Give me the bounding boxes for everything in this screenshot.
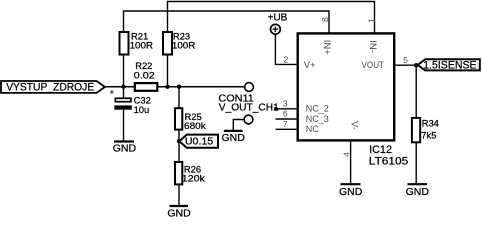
wire rail to R25 top: [178, 87, 180, 109]
resistor R22: [134, 60, 158, 91]
svg-text:3: 3: [283, 98, 288, 108]
ground under CON11 pin 2: [222, 131, 246, 144]
svg-text:NC_2: NC_2: [306, 104, 329, 114]
wire +UB to IC pin 2: [275, 34, 298, 64]
svg-text:1.5ISENSE: 1.5ISENSE: [423, 60, 476, 72]
svg-text:NC_3: NC_3: [306, 114, 329, 124]
connector CON11 pin terminal 2: [244, 115, 253, 124]
svg-text:IC12: IC12: [369, 144, 392, 156]
node label attach dot pin 3: [274, 107, 278, 111]
svg-text:0.02: 0.02: [134, 70, 155, 81]
wire IC pin 6 stub: [276, 118, 299, 120]
resistor R34: [412, 118, 439, 143]
resistor R26: [175, 162, 205, 184]
svg-text:V_OUT_CH1: V_OUT_CH1: [219, 102, 279, 114]
node junction at U0.15 tap: [177, 139, 181, 143]
svg-text:GND: GND: [222, 132, 246, 144]
svg-text:680k: 680k: [184, 120, 206, 131]
svg-text:6: 6: [283, 109, 288, 119]
svg-text:IN-: IN-: [367, 40, 378, 53]
svg-text:100R: 100R: [130, 39, 154, 50]
svg-text:GND: GND: [113, 143, 137, 155]
connector CON11 pin terminal 1: [245, 83, 254, 92]
ground under R34: [406, 184, 430, 198]
svg-text:GND: GND: [167, 208, 191, 217]
wire net from R21 top to IC pin 8: [124, 11, 330, 33]
svg-text:VOUT: VOUT: [362, 60, 385, 71]
power +UB: [268, 12, 288, 34]
wire R25 bottom to R26 top: [178, 130, 180, 162]
wire rail left of R22: [105, 86, 134, 88]
net label 1.5ISENSE: [418, 59, 480, 71]
svg-text:LT6105: LT6105: [369, 156, 409, 168]
svg-text:U0.15: U0.15: [185, 136, 214, 147]
net label VYSTUP_ZDROJE: [1, 81, 105, 94]
node junction R25/rail: [177, 85, 181, 89]
svg-text:NC: NC: [306, 124, 319, 134]
svg-text:V+: V+: [304, 60, 316, 71]
svg-text:GND: GND: [406, 186, 430, 198]
wire net from R23 top to IC pin 1: [168, 2, 375, 34]
svg-text:+UB: +UB: [268, 12, 288, 23]
svg-text:V-: V-: [349, 121, 360, 130]
wire IC pin 4 to ground: [350, 140, 352, 184]
svg-text:5: 5: [403, 55, 408, 65]
resistor R25: [175, 108, 206, 131]
svg-text:IN+: IN+: [321, 40, 332, 56]
svg-text:100R: 100R: [172, 39, 196, 50]
wire node to R34 top: [415, 65, 417, 118]
wire IC pin 7 stub: [276, 128, 299, 130]
node junction R23/rail: [165, 85, 169, 89]
node junction pin5/R34: [414, 63, 418, 67]
svg-text:VYSTUP_ZDROJE: VYSTUP_ZDROJE: [6, 82, 94, 94]
svg-text:10u: 10u: [134, 104, 150, 115]
svg-text:8: 8: [320, 17, 330, 22]
wire R34 bottom to ground: [415, 142, 417, 184]
resistor R21: [120, 31, 154, 55]
svg-text:4: 4: [342, 152, 352, 157]
wire R23 bottom to rail: [167, 55, 169, 87]
svg-text:2: 2: [283, 54, 288, 64]
ground under IC pin 4: [339, 184, 363, 198]
svg-text:120k: 120k: [182, 173, 205, 184]
wire IC pin 3 stub: [274, 108, 298, 110]
svg-text:R34: R34: [422, 118, 439, 129]
op-amp IC12 LT6105 body: [298, 33, 395, 140]
resistor R23: [163, 31, 196, 55]
ground under R26: [167, 206, 191, 220]
net label U0.15: [179, 135, 218, 148]
wire R26 bottom to ground: [178, 184, 180, 206]
ground under C32: [113, 142, 137, 155]
wire CON11 pin 2 to ground: [233, 120, 243, 131]
svg-text:7: 7: [283, 119, 288, 129]
wire rail right of R22 to CON11: [158, 86, 245, 88]
svg-text:GND: GND: [339, 186, 363, 198]
svg-text:1: 1: [366, 18, 376, 23]
node junction R21/rail: [121, 85, 125, 89]
svg-text:7k5: 7k5: [421, 130, 436, 141]
capacitor C32: [110, 87, 151, 142]
wire R21 bottom to rail: [123, 55, 125, 87]
wire IC pin 5 to node: [394, 64, 416, 66]
